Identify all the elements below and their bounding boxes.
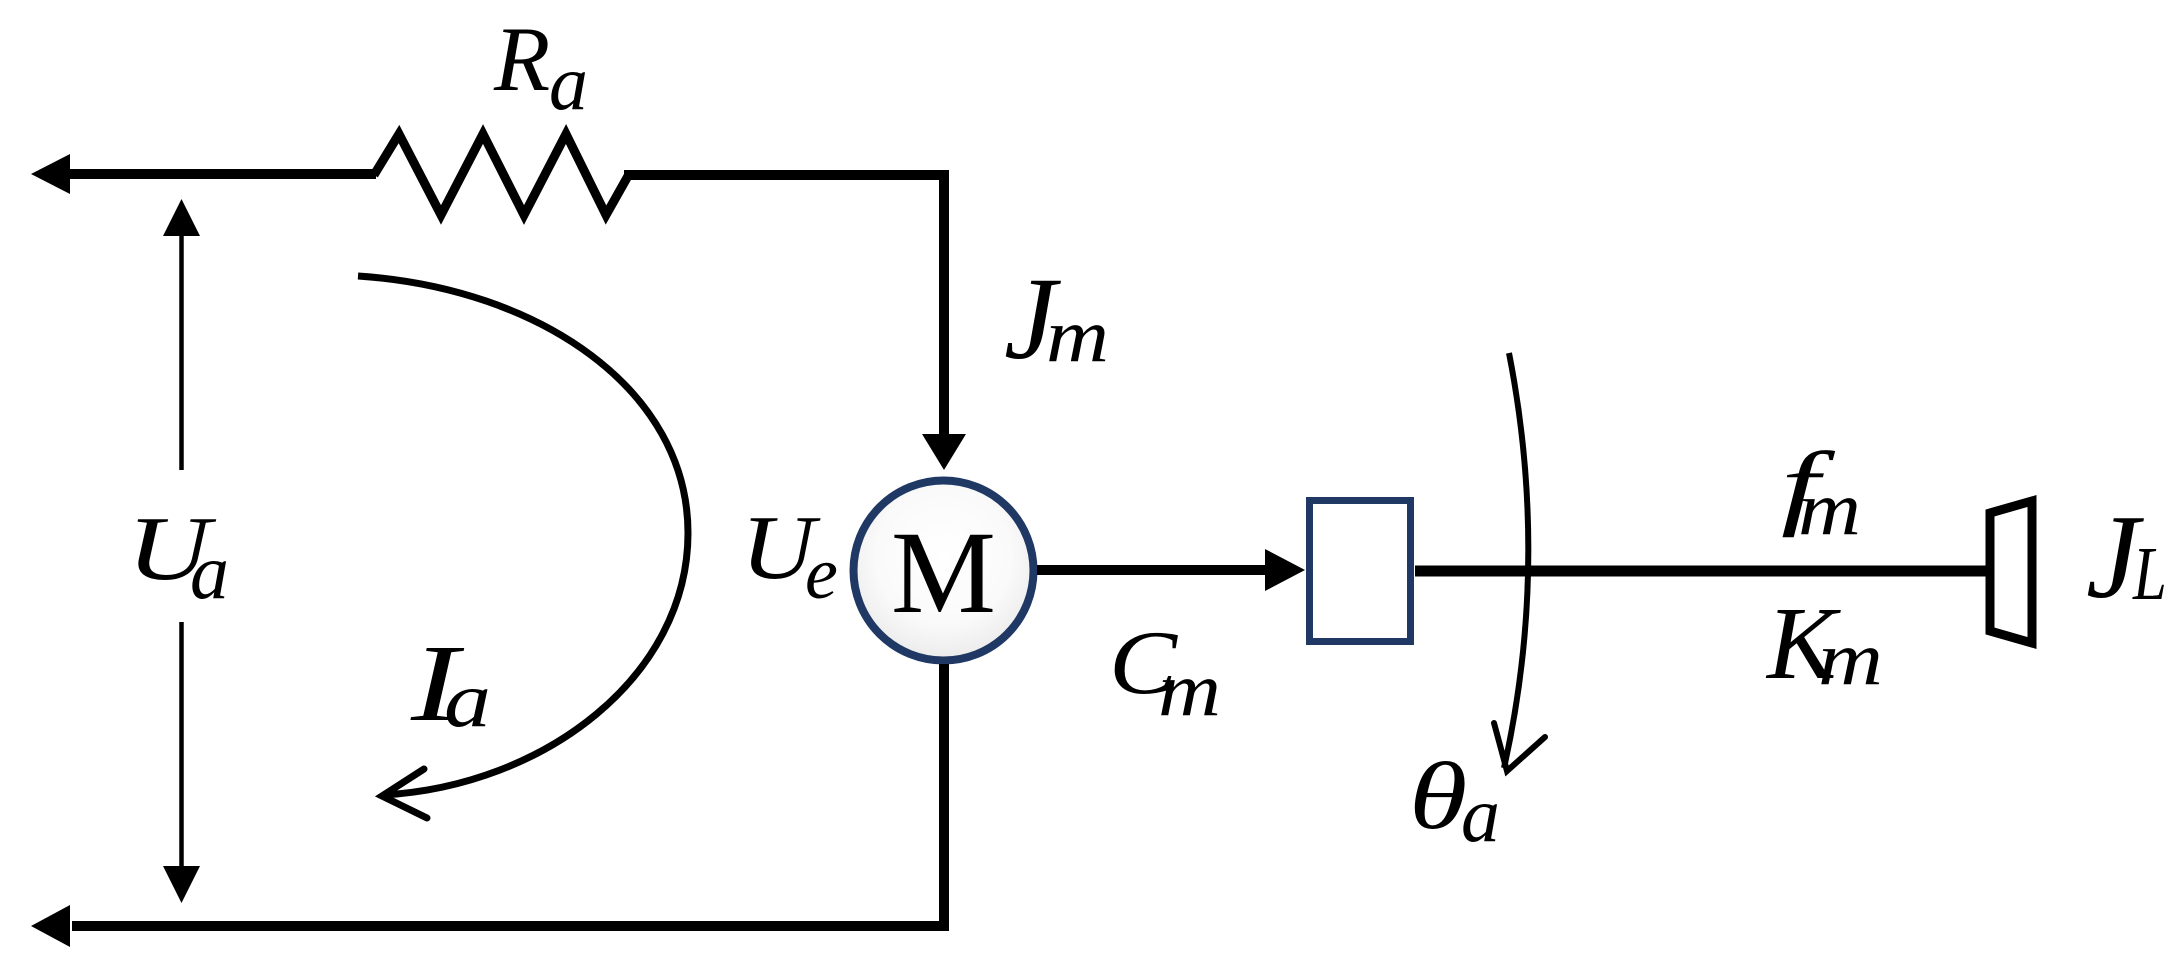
arc: theta_a rotation (1504, 353, 1528, 768)
Ua dimension arrow upper head (163, 199, 200, 236)
coupling box (1310, 501, 1411, 642)
label fm (1781, 433, 1861, 551)
label Ia (410, 622, 491, 744)
arrowhead: Cm arrow into coupling box (1265, 549, 1305, 591)
arrowhead: top lead, pointing left (31, 154, 70, 194)
svg-text:m: m (1158, 648, 1221, 732)
wire: top lead from resistor to left edge (66, 169, 376, 179)
svg-text:a: a (549, 39, 588, 126)
label Km (1765, 586, 1883, 701)
svg-text:M: M (891, 507, 996, 638)
svg-text:a: a (1461, 771, 1500, 858)
wire: resistor right to corner, down toward motor (624, 175, 944, 437)
svg-text:L: L (2132, 532, 2167, 616)
svg-text:m: m (1818, 617, 1883, 701)
svg-text:R: R (493, 8, 550, 110)
label Ra (493, 8, 588, 126)
Ua dimension arrow upper stem (179, 232, 184, 470)
svg-text:m: m (1798, 467, 1861, 551)
wire: motor bottom return lead (72, 664, 944, 926)
label Jm (1004, 253, 1109, 384)
arrowhead: theta_a (open) (1494, 723, 1545, 771)
label Ua (127, 498, 229, 615)
Ua dimension arrow lower stem (179, 622, 184, 870)
load JL trapezoid (1990, 501, 2032, 643)
label Ue (741, 497, 838, 615)
shaft: coupling to load (1415, 566, 1991, 577)
svg-text:θ: θ (1409, 744, 1467, 849)
arrowhead: Jm arrow into motor (922, 434, 966, 470)
svg-text:a: a (190, 528, 229, 615)
svg-text:m: m (1046, 294, 1109, 378)
svg-text:e: e (805, 533, 838, 615)
label JL (2086, 490, 2167, 623)
label theta_a (1409, 744, 1500, 858)
label Cm (1109, 612, 1221, 732)
Ua dimension arrow lower head (163, 866, 200, 903)
motor M circle (854, 481, 1034, 661)
arrowhead: Ia (open) (382, 769, 427, 818)
wire: motor to coupling (1037, 565, 1267, 575)
resistor Ra (zigzag) (374, 134, 628, 215)
arc: Ia current loop (358, 276, 688, 795)
arrowhead: bottom lead, pointing left (31, 905, 70, 947)
svg-text:a: a (444, 656, 491, 743)
